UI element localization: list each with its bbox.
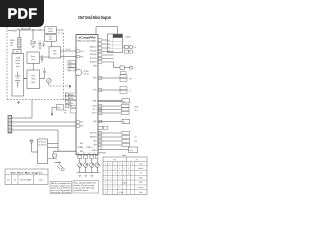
wire: RF ground stub — [48, 151, 58, 159]
wire: 3.3V into MCU — [61, 50, 77, 52]
MCU bottom pin boxes — [78, 155, 98, 158]
wire: J3 pin3 to MCU — [12, 125, 76, 127]
table T2 (pinout table) — [103, 155, 147, 195]
svg-text:RC3/RX1: RC3/RX1 — [90, 62, 97, 64]
switch S2 (battery switch) — [13, 50, 21, 54]
svg-text:RC0/TX0: RC0/TX0 — [90, 51, 97, 53]
pin stub boxes (MCU left edge, mid) — [76, 121, 79, 127]
switch S1 — [14, 29, 19, 32]
dashed power-section border (top horizontal) — [58, 32, 64, 34]
svg-text:0.1uF: 0.1uF — [66, 49, 70, 51]
node: junction on 5V rail 2 — [39, 29, 40, 30]
svg-text:RB4: RB4 — [93, 145, 96, 147]
svg-text:+3.3Vsw: +3.3Vsw — [125, 37, 132, 39]
transistor Q5 — [95, 159, 99, 173]
wire: U3 to U4 — [51, 41, 53, 47]
wire: aux row — [98, 121, 122, 123]
wire: J2 up to switch — [20, 30, 22, 38]
dashed power-section border (left vertical) — [6, 27, 8, 100]
svg-text:e: e — [124, 163, 125, 165]
PDF badge — [0, 0, 44, 27]
diode D1 — [31, 41, 35, 45]
svg-text:Misc: Misc — [139, 192, 142, 194]
svg-text:Boost: Boost — [31, 55, 36, 58]
wire: double bus row — [98, 100, 122, 101]
wire: VDD into MCU — [61, 56, 77, 58]
battery symbol (inside BT1) — [15, 72, 21, 88]
crystal Y1 — [75, 69, 81, 75]
regulator U3 (LDO 3.3V) — [45, 35, 57, 41]
svg-text:SCL1: SCL1 — [93, 109, 97, 111]
svg-text:Table: Table — [122, 155, 126, 157]
svg-text:Select: Select — [48, 30, 53, 33]
svg-text:RB3: RB3 — [93, 141, 96, 143]
svg-text:32.768: 32.768 — [84, 71, 89, 73]
svg-text:a2: a2 — [108, 43, 110, 45]
wire: charger output — [40, 78, 45, 80]
wire: RF data out — [48, 144, 59, 152]
wire: J3 pin2 to MCU — [12, 121, 76, 123]
svg-text:Conv: Conv — [31, 59, 35, 61]
wire: bottom right stub — [98, 149, 129, 151]
svg-text:VSS: VSS — [80, 56, 83, 58]
wire: 5V rail — [8, 29, 45, 32]
wire: UART rows with labels — [102, 52, 114, 63]
regulator U4 (MCP1700) — [49, 47, 61, 58]
svg-text:22p: 22p — [69, 62, 72, 64]
connector J2 (USB) — [18, 38, 21, 49]
svg-text:DM...: DM... — [10, 43, 14, 45]
resistor R9 — [122, 119, 130, 123]
svg-text:Pin: Pin — [113, 159, 116, 161]
note N2 — [73, 181, 99, 194]
svg-text:SCL: SCL — [135, 110, 138, 112]
wire: step down to LED cluster B — [114, 62, 121, 68]
label: crystal frequency — [84, 71, 89, 75]
capacitor C2 — [42, 42, 44, 48]
svg-text:VBUS: VBUS — [10, 40, 14, 42]
battery holder BT1 — [12, 54, 24, 97]
wire: drop to diode D1 — [32, 30, 34, 40]
wire: MCU to mux row2 — [102, 43, 108, 45]
svg-text:VSS: VSS — [69, 106, 72, 108]
svg-text:Fn: Fn — [136, 159, 138, 161]
svg-text:a3: a3 — [108, 47, 110, 49]
svg-text:5: 5 — [124, 168, 125, 170]
pin number boxes (MCU right edge rows) — [98, 39, 102, 63]
diode D2 (dual diagonal marks) — [57, 165, 64, 171]
power input box B1 (partly under badge) — [22, 22, 30, 29]
MCU right-edge pin labels — [90, 46, 98, 152]
svg-text:OSC1: OSC1 — [78, 147, 82, 149]
svg-text:P2: P2 — [83, 153, 85, 155]
I2C rows with resistors R6-R8 — [98, 104, 139, 114]
svg-text:INT1: INT1 — [93, 90, 97, 92]
MCU left-edge pin labels — [80, 51, 84, 153]
dashed power-section border (inner bottom horizontal) — [50, 85, 64, 87]
svg-text:eCompPAd: eCompPAd — [79, 37, 97, 40]
svg-text:5: 5 — [119, 173, 120, 175]
svg-text:INT0: INT0 — [93, 78, 97, 80]
wire: boost to charger — [32, 64, 34, 71]
wire: MCU to mux row3 — [102, 47, 108, 49]
pin boxes (MCU left edge, power rows) — [76, 50, 79, 58]
ground symbols (Q2-Q5) — [79, 176, 93, 177]
svg-text:5V: 5V — [100, 148, 102, 150]
svg-text:22p: 22p — [69, 66, 72, 68]
capacitor C3 — [43, 68, 46, 79]
svg-text:RC1/RX0: RC1/RX0 — [90, 54, 97, 56]
node: junction near MCU left edge — [69, 85, 71, 87]
node: battery junction — [25, 78, 26, 79]
ground bus (under transistors) — [77, 172, 100, 174]
label: regulator note (left of MCU) — [64, 109, 76, 115]
svg-text:holder: holder — [16, 63, 21, 65]
transistor Q2 — [78, 159, 82, 173]
MCU bottom pin labels — [78, 147, 96, 155]
wire: IO row — [98, 89, 120, 91]
resistor pair R1/R2 — [120, 75, 132, 81]
svg-text:RD1: RD1 — [80, 126, 83, 128]
svg-text:P3: P3 — [89, 153, 91, 155]
wire: feed from MCU top to mux — [96, 27, 118, 35]
microcontroller U1 — [76, 35, 98, 155]
svg-text:1700: 1700 — [53, 54, 57, 56]
arrow: net arrow into MCU row — [51, 105, 64, 117]
switch S3 (pushbutton) — [53, 154, 57, 157]
svg-text:Key: all parts 0603 size: Key: all parts 0603 size — [74, 181, 96, 184]
svg-text:RD0: RD0 — [80, 122, 83, 124]
wire: J3 pin4 drop to RF node — [57, 130, 59, 144]
svg-text:7: 7 — [124, 177, 125, 179]
svg-text:DP...: DP... — [10, 45, 14, 47]
arrow: net arrow right — [55, 162, 61, 164]
svg-text:P1: P1 — [78, 153, 80, 155]
svg-text:SSoT Detail Block Diagram: SSoT Detail Block Diagram — [78, 15, 111, 20]
svg-text:INT: INT — [129, 78, 132, 80]
svg-text:RC2/TX1: RC2/TX1 — [90, 58, 97, 60]
resistor RA + LED1 cluster — [123, 45, 137, 49]
UART2 rows with resistors R10-R13 — [98, 131, 138, 146]
dashed power-section border (bottom horizontal) — [7, 99, 76, 101]
svg-text:73831: 73831 — [31, 79, 36, 81]
svg-text:RB1/TX2: RB1/TX2 — [90, 133, 97, 135]
antenna ANT1 — [30, 140, 38, 152]
label: +5V net marker — [17, 101, 20, 104]
svg-text:led: led — [123, 121, 125, 123]
pin number boxes (MCU right edge lower rows) — [98, 77, 102, 146]
svg-text:RB2/RX2: RB2/RX2 — [90, 137, 97, 139]
transistor Q4 — [90, 159, 94, 173]
svg-text:4: 4 — [119, 168, 120, 170]
table T1 (revision table) — [5, 169, 48, 185]
resistor R5 — [122, 99, 130, 103]
wire: boost output — [40, 56, 50, 58]
svg-text:3v3: 3v3 — [64, 110, 67, 112]
svg-text:d: d — [119, 163, 120, 165]
capacitor bank C4-C6 (decoupling, left of clock) — [68, 61, 76, 72]
svg-text:Rcv Module: Rcv Module — [39, 144, 47, 146]
pin box pair (MCU right edge lower) — [98, 126, 107, 129]
wire: MCLR stub — [98, 152, 106, 154]
svg-text:RB0: RB0 — [93, 121, 96, 123]
svg-text:RB9: RB9 — [93, 65, 96, 67]
svg-text:kHz clk: kHz clk — [84, 73, 89, 75]
svg-text:conn: conn — [130, 150, 133, 152]
resistor pair under RA — [125, 50, 135, 54]
svg-text:x1 Mux: x1 Mux — [119, 192, 124, 194]
wire: J3 pin4 — [12, 129, 58, 131]
regulator U5 (boost converter) — [27, 52, 40, 64]
svg-text:Die Rev Bar Ingres: Die Rev Bar Ingres — [11, 172, 43, 174]
connector J3 (left header) — [8, 116, 12, 134]
svg-text:name: name — [139, 163, 143, 165]
wire: battery to charger — [24, 78, 28, 80]
ground (under C1) — [39, 48, 41, 49]
charger U6 (MCP73831) — [27, 70, 40, 89]
resistor RB + LED2 cluster — [120, 66, 136, 70]
svg-text:8: 8 — [119, 187, 120, 189]
transistor Q3 — [84, 159, 88, 173]
resistor R15 (below LED2) — [121, 72, 127, 75]
ground (under D1) — [32, 46, 35, 47]
svg-text:PDF: PDF — [8, 7, 38, 23]
svg-text:x0 Mux: x0 Mux — [122, 182, 127, 184]
page background — [0, 0, 149, 198]
module U8 (RF remote receiver) — [38, 139, 48, 164]
wire: INT row — [98, 77, 120, 79]
svg-text:Microcontroller: Microcontroller — [78, 40, 97, 43]
svg-text:X B BX: X B BX — [20, 180, 33, 182]
svg-text:SDO1: SDO1 — [92, 113, 96, 115]
svg-text:PWM1..4: PWM1..4 — [87, 147, 93, 149]
capacitor C1 — [39, 41, 42, 48]
wire: rail to dashed border — [57, 29, 64, 31]
svg-text:P4: P4 — [94, 153, 96, 155]
transistor Q1 — [47, 78, 52, 85]
note N1 — [50, 182, 72, 194]
svg-text:RD4: RD4 — [80, 151, 83, 153]
node: junction on 5V rail — [32, 29, 33, 30]
dashed power-section border (inner right vertical) — [63, 33, 65, 100]
wire: MCU to mux row1 — [102, 39, 108, 41]
svg-text:6: 6 — [119, 177, 120, 179]
resistor R14 (isolated above table) — [129, 147, 138, 153]
pin boxes PB1-PB4 (MCU left edge) — [65, 93, 76, 108]
regulator U2 (power select) — [45, 27, 57, 34]
label: small pin box pair (MCU top area) — [70, 101, 76, 106]
wire: common line into MCU bottom-left — [54, 150, 77, 152]
resistor pair R3/R4 — [120, 87, 132, 93]
svg-text:a1: a1 — [108, 40, 110, 42]
mux U7 — [108, 34, 123, 53]
capacitor C7 (boost output) — [41, 55, 43, 63]
wire: J3 pin1 to 5V rail — [12, 100, 32, 119]
svg-text:RX3: RX3 — [80, 143, 83, 145]
